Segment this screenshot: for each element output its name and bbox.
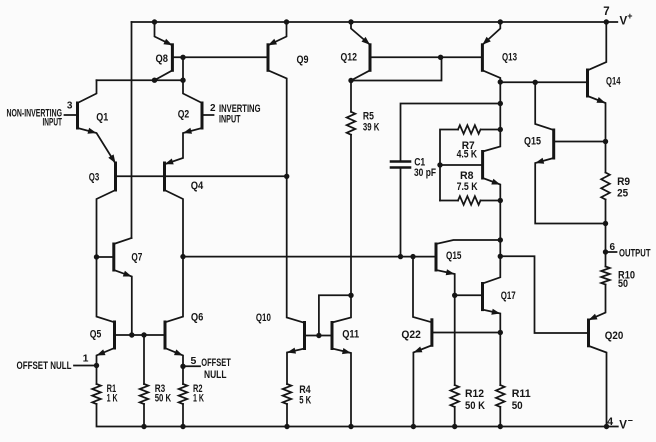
svg-text:INPUT: INPUT [219, 114, 241, 126]
svg-text:R11: R11 [512, 388, 531, 400]
svg-text:39 K: 39 K [363, 121, 380, 133]
svg-text:3: 3 [67, 100, 73, 111]
svg-text:6: 6 [610, 242, 616, 253]
svg-text:Q3: Q3 [89, 171, 100, 183]
svg-text:R9: R9 [617, 176, 630, 188]
svg-text:4: 4 [607, 416, 614, 428]
svg-text:50 K: 50 K [155, 393, 172, 405]
svg-text:OFFSET NULL: OFFSET NULL [17, 360, 72, 372]
svg-text:Q15: Q15 [524, 135, 541, 147]
svg-text:Q2: Q2 [178, 109, 190, 121]
svg-text:Q11: Q11 [342, 328, 359, 340]
svg-text:Q20: Q20 [605, 330, 624, 342]
svg-text:1 K: 1 K [107, 393, 118, 405]
svg-text:7.5 K: 7.5 K [457, 181, 478, 193]
svg-text:Q17: Q17 [501, 290, 516, 302]
svg-text:Q4: Q4 [191, 180, 204, 192]
svg-text:30 pF: 30 pF [414, 167, 436, 179]
svg-text:V: V [619, 420, 627, 432]
svg-text:Q12: Q12 [341, 51, 358, 63]
svg-text:Q14: Q14 [606, 76, 621, 88]
svg-text:R12: R12 [465, 388, 484, 400]
svg-text:Q8: Q8 [156, 53, 169, 65]
svg-text:Q22: Q22 [401, 329, 421, 341]
svg-text:5 K: 5 K [299, 395, 311, 407]
svg-text:1 K: 1 K [193, 393, 204, 405]
svg-text:OFFSET: OFFSET [201, 357, 231, 369]
svg-text:Q10: Q10 [256, 312, 271, 324]
svg-text:1: 1 [83, 353, 89, 365]
svg-text:Q13: Q13 [502, 51, 517, 63]
svg-text:V: V [620, 15, 628, 27]
svg-text:5: 5 [190, 355, 196, 367]
svg-text:2: 2 [210, 103, 216, 114]
svg-text:NULL: NULL [204, 369, 227, 381]
svg-text:Q9: Q9 [297, 54, 309, 66]
svg-text:50: 50 [618, 278, 628, 290]
svg-text:OUTPUT: OUTPUT [619, 248, 651, 260]
svg-text:7: 7 [603, 6, 609, 18]
svg-text:Q7: Q7 [131, 251, 142, 263]
svg-text:Q6: Q6 [191, 312, 204, 324]
svg-text:50: 50 [512, 400, 523, 412]
svg-text:Q5: Q5 [90, 329, 102, 341]
svg-text:INPUT: INPUT [43, 117, 63, 129]
svg-text:25: 25 [617, 188, 628, 200]
svg-text:+: + [627, 11, 632, 21]
svg-text:Q15: Q15 [446, 250, 462, 262]
svg-text:Q1: Q1 [96, 111, 108, 123]
svg-text:4.5 K: 4.5 K [457, 148, 478, 160]
svg-text:−: − [628, 415, 633, 425]
svg-text:50 K: 50 K [465, 400, 485, 412]
